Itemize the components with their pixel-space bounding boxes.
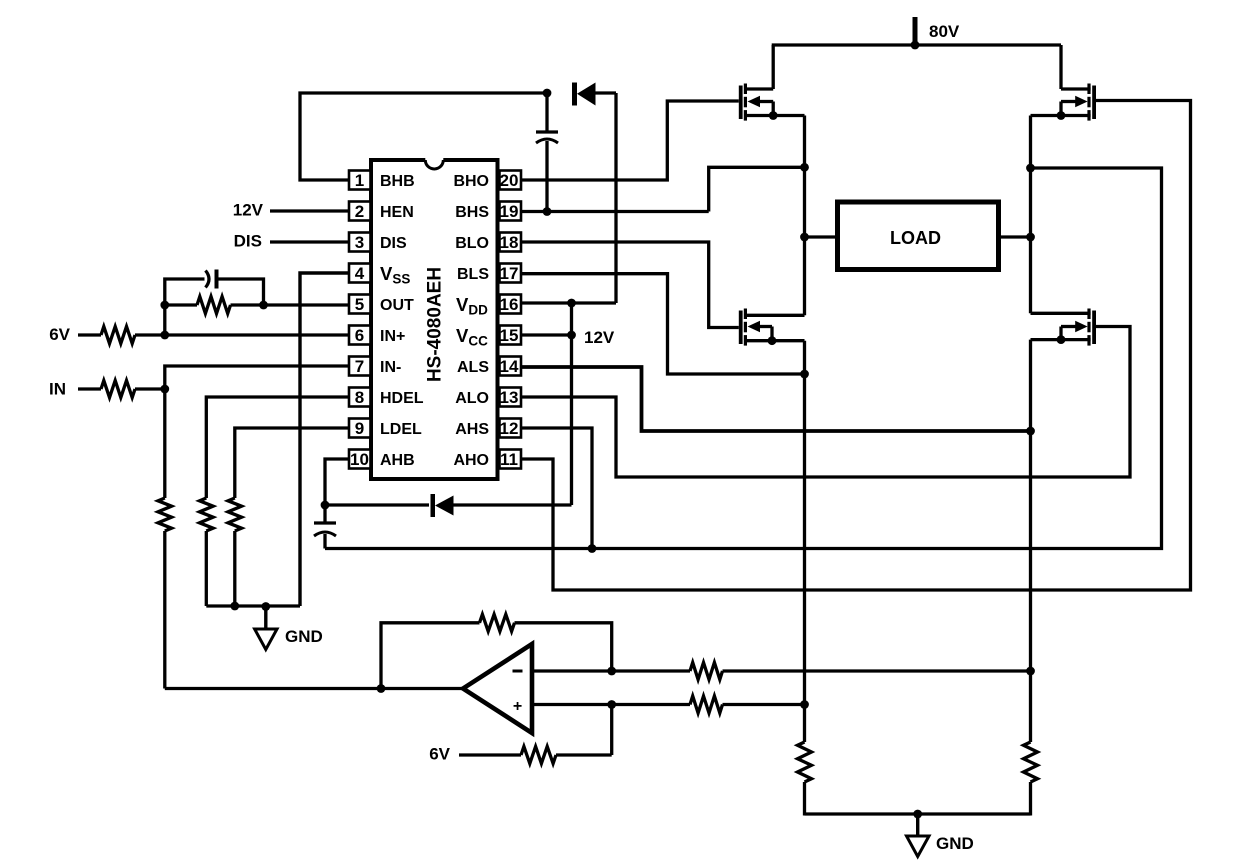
node op-amp output	[377, 684, 386, 693]
node IN junction	[160, 385, 169, 394]
resistor R9 op-amp feedback	[381, 614, 612, 688]
node BHS load left	[800, 163, 809, 172]
node ALS junction	[1026, 427, 1035, 436]
svg-text:8: 8	[355, 388, 364, 407]
pin 14 name ALS	[457, 359, 489, 376]
pin 15 name VCC	[456, 325, 488, 349]
wire pin 14 ALS to Q4 source	[521, 367, 1031, 431]
pin 16 name VDD	[456, 294, 488, 318]
svg-text:12V: 12V	[584, 328, 615, 347]
svg-text:13: 13	[500, 388, 519, 407]
wire 12V to pin 2 HEN	[270, 209, 348, 212]
wire left leg upper	[803, 116, 806, 316]
pin 1 box	[349, 171, 371, 190]
node IN+ junction	[160, 331, 169, 340]
80V supply stub	[913, 17, 918, 45]
pin 15 number	[500, 326, 519, 345]
pin 17 number	[500, 264, 519, 283]
node load left terminal	[800, 233, 809, 242]
svg-text:4: 4	[355, 264, 365, 283]
pin 16 box	[500, 295, 522, 314]
svg-text:19: 19	[500, 202, 519, 221]
wire OUT RC to IN+	[163, 305, 166, 335]
node C1 to BHS	[543, 207, 552, 216]
pin 12 box	[500, 419, 522, 438]
svg-text:3: 3	[355, 233, 364, 252]
pin 10 box	[349, 450, 371, 469]
wire op-amp plus line	[532, 703, 690, 706]
pin 6 name IN+	[380, 328, 405, 345]
node bootstrap A junction	[321, 501, 330, 510]
pin 11 name AHO	[453, 452, 489, 469]
svg-text:HEN: HEN	[380, 204, 414, 221]
op-amp driver IC U1 HS-4080AEH body	[371, 157, 498, 479]
svg-text:HDEL: HDEL	[380, 390, 424, 407]
pin 6 box	[349, 326, 371, 345]
node VDD 12V junction	[567, 299, 576, 308]
svg-text:15: 15	[500, 326, 519, 345]
node VCC 12V junction	[567, 331, 576, 340]
wire pin 13 ALO to Q4 gate	[521, 327, 1131, 478]
wire op-amp minus line	[532, 669, 690, 672]
resistor R2 6V input	[78, 327, 348, 344]
pin 4 name VSS	[380, 263, 410, 287]
svg-text:BHB: BHB	[380, 173, 415, 190]
node AHS cap junction	[588, 544, 597, 553]
node load right terminal	[1026, 233, 1035, 242]
svg-text:BHO: BHO	[453, 173, 489, 190]
svg-text:IN+: IN+	[380, 328, 405, 345]
pin 14 box	[500, 357, 522, 376]
node ground bottom junction	[913, 810, 922, 819]
wire load left lead	[805, 235, 838, 238]
label GND bottom	[936, 834, 974, 853]
svg-text:IN-: IN-	[380, 359, 401, 376]
svg-text:BHS: BHS	[455, 204, 489, 221]
U1 part number label HS-4080AEH	[425, 267, 446, 382]
svg-text:12: 12	[500, 419, 519, 438]
wire pin 15 VCC	[521, 333, 572, 336]
wire pin 4 VSS down to ground rail	[300, 273, 348, 606]
transistor Q3 top-right NMOS	[1031, 45, 1097, 121]
pin 9 box	[349, 419, 371, 438]
wire pin 18 BLO to Q2 gate	[521, 242, 739, 328]
wire pin 17 BLS to Q2 source	[521, 274, 805, 374]
pin 13 name ALO	[455, 390, 489, 407]
label LOAD	[890, 228, 941, 248]
pin 17 name BLS	[457, 266, 489, 283]
wire AHS net to Q3 source	[325, 168, 1162, 549]
bootstrap diode D2	[325, 494, 572, 517]
resistor R6 LDEL	[228, 498, 242, 531]
wire DIS to pin 3	[270, 240, 348, 243]
node op-amp non-inverting input	[607, 700, 616, 709]
pin 5 name OUT	[380, 297, 414, 314]
wire R10 to right leg	[723, 669, 1031, 672]
pin 7 number	[355, 357, 364, 376]
svg-text:6V: 6V	[49, 325, 70, 344]
svg-text:14: 14	[500, 357, 519, 376]
pin 15 box	[500, 326, 522, 345]
svg-text:20: 20	[500, 171, 519, 190]
pin 18 name BLO	[455, 235, 489, 252]
svg-text:9: 9	[355, 419, 364, 438]
label DIS	[234, 232, 262, 251]
pin 1 name BHB	[380, 173, 415, 190]
pin 2 box	[349, 202, 371, 221]
resistor R3 IN input	[78, 381, 165, 398]
wire R11 to left leg	[723, 703, 805, 706]
pin 3 name DIS	[380, 235, 407, 252]
wire pin 16 VDD	[521, 301, 617, 304]
label 80V	[929, 22, 960, 41]
pin 2 number	[355, 202, 364, 221]
wire load right lead	[999, 235, 1031, 238]
pin 18 number	[500, 233, 519, 252]
wire pin 20 BHO to Q1 gate	[521, 101, 739, 180]
svg-text:16: 16	[500, 295, 519, 314]
label 12V at HEN	[233, 201, 264, 220]
node minus sense junction	[1026, 667, 1035, 676]
wire pin 11 AHO to Q3 gate	[521, 101, 1191, 591]
svg-text:AHB: AHB	[380, 452, 415, 469]
svg-text:BLO: BLO	[455, 235, 489, 252]
pin 13 number	[500, 388, 519, 407]
wire 6V bias to plus input	[610, 705, 613, 756]
svg-text:IN: IN	[49, 380, 66, 399]
node ground stem junction	[261, 602, 270, 611]
pin 8 name HDEL	[380, 390, 424, 407]
pin 19 name BHS	[455, 204, 489, 221]
resistor R7 sense left	[798, 742, 812, 782]
wire op-amp output line	[165, 687, 464, 690]
pin 4 number	[355, 264, 365, 283]
svg-text:12V: 12V	[233, 201, 264, 220]
pin 6 number	[355, 326, 364, 345]
pin 11 number	[500, 450, 518, 469]
svg-text:7: 7	[355, 357, 364, 376]
capacitor C3 feedback	[165, 270, 264, 306]
bootstrap capacitor C2	[314, 505, 336, 549]
bootstrap diode D1	[572, 83, 616, 106]
wire pin 8 HDEL	[206, 397, 348, 498]
resistor R10 minus input	[690, 663, 723, 680]
transistor Q4 bottom-right NMOS	[1031, 309, 1097, 346]
wire ground rail left	[206, 604, 300, 607]
wire left leg lower	[803, 341, 806, 742]
svg-text:1: 1	[355, 171, 364, 190]
svg-text:GND: GND	[936, 834, 974, 853]
pin 19 number	[500, 202, 519, 221]
svg-text:10: 10	[350, 450, 369, 469]
wire R6 to ground rail	[233, 531, 236, 606]
wire pin 7 IN- left	[165, 366, 348, 389]
node BLS junction	[800, 370, 809, 379]
pin 8 number	[355, 388, 364, 407]
bootstrap capacitor C1	[536, 93, 558, 212]
pin 5 number	[355, 295, 364, 314]
wire right leg upper	[1029, 116, 1032, 314]
svg-text:DIS: DIS	[380, 235, 407, 252]
node OUT right	[259, 301, 268, 310]
wire pin 1 BHB to bootstrap node	[300, 93, 547, 180]
op-amp plus label	[513, 698, 522, 715]
svg-text:ALS: ALS	[457, 359, 489, 376]
pin 17 box	[500, 264, 522, 283]
resistor R11 plus input	[690, 696, 723, 713]
resistor R1 feedback OUT	[165, 297, 264, 314]
svg-text:6V: 6V	[429, 745, 450, 764]
pin 18 box	[500, 233, 522, 252]
svg-text:AHS: AHS	[455, 421, 489, 438]
label IN input	[49, 380, 66, 399]
svg-text:18: 18	[500, 233, 519, 252]
label 6V input	[49, 325, 70, 344]
ground symbol bottom	[907, 814, 930, 857]
wire pin 10 AHB to bootstrap node	[325, 459, 348, 505]
wire pin 12 AHS	[521, 428, 593, 549]
pin 4 box	[349, 264, 371, 283]
wire R5 to ground rail	[205, 531, 208, 606]
transistor Q1 top-left NMOS	[739, 45, 805, 121]
label 6V bias	[429, 745, 450, 764]
pin 7 name IN-	[380, 359, 401, 376]
pin 7 box	[349, 357, 371, 376]
svg-text:80V: 80V	[929, 22, 960, 41]
wire BHS up to load left node	[709, 167, 805, 211]
wire pin 19 BHS	[521, 210, 709, 213]
wire bottom ground rail	[805, 812, 1031, 815]
wire pin 5 OUT	[264, 303, 349, 306]
node bootstrap B junction	[543, 89, 552, 98]
load box	[838, 202, 999, 270]
svg-text:LOAD: LOAD	[890, 228, 941, 248]
svg-text:11: 11	[500, 450, 518, 469]
pin 19 box	[500, 202, 522, 221]
label 12V supply	[584, 328, 615, 347]
ground symbol left	[255, 606, 277, 650]
node 80V junction	[911, 41, 920, 50]
wire 12V rail vertical	[570, 303, 573, 505]
wire R7 to ground rail	[803, 782, 806, 816]
pin 20 number	[500, 171, 519, 190]
pin 20 box	[500, 171, 522, 190]
pin 16 number	[500, 295, 519, 314]
pin 3 box	[349, 233, 371, 252]
wire R8 to ground rail	[1029, 782, 1032, 816]
pin 20 name BHO	[453, 173, 489, 190]
pin 12 number	[500, 419, 519, 438]
transistor Q2 bottom-left NMOS	[739, 309, 805, 346]
resistor R12 6V bias	[459, 747, 612, 764]
node plus sense junction	[800, 700, 809, 709]
pin 8 box	[349, 388, 371, 407]
svg-text:OUT: OUT	[380, 297, 414, 314]
svg-text:+: +	[513, 698, 522, 715]
svg-text:17: 17	[500, 264, 519, 283]
node op-amp inverting input	[607, 667, 616, 676]
resistor R8 sense right	[1024, 742, 1038, 782]
node LDEL ground junction	[230, 602, 239, 611]
node AHS load right	[1026, 164, 1035, 173]
resistor R5 HDEL	[200, 498, 214, 531]
wire 80V top rail	[772, 43, 1061, 46]
svg-text:ALO: ALO	[455, 390, 489, 407]
label GND left	[285, 627, 323, 646]
pin 9 name LDEL	[380, 421, 422, 438]
svg-text:HS-4080AEH: HS-4080AEH	[425, 267, 446, 382]
op-amp minus label	[513, 670, 523, 673]
svg-text:BLS: BLS	[457, 266, 489, 283]
pin 10 name AHB	[380, 452, 415, 469]
node OUT left	[160, 301, 169, 310]
pin 13 box	[500, 388, 522, 407]
svg-text:AHO: AHO	[453, 452, 489, 469]
svg-text:6: 6	[355, 326, 364, 345]
wire D1 anode to VDD rail	[614, 93, 617, 303]
svg-text:2: 2	[355, 202, 364, 221]
pin 2 name HEN	[380, 204, 414, 221]
resistor R4 to op-amp output	[158, 389, 172, 689]
pin 12 name AHS	[455, 421, 489, 438]
svg-text:LDEL: LDEL	[380, 421, 422, 438]
svg-text:DIS: DIS	[234, 232, 262, 251]
pin 9 number	[355, 419, 364, 438]
op-amp U2	[463, 644, 532, 733]
pin 1 number	[355, 171, 364, 190]
pin 3 number	[355, 233, 364, 252]
pin 5 box	[349, 295, 371, 314]
pin 11 box	[500, 450, 522, 469]
wire pin 9 LDEL	[235, 428, 348, 498]
pin 14 number	[500, 357, 519, 376]
wire right leg lower	[1029, 340, 1032, 742]
svg-text:GND: GND	[285, 627, 323, 646]
svg-text:5: 5	[355, 295, 364, 314]
pin 10 number	[350, 450, 369, 469]
